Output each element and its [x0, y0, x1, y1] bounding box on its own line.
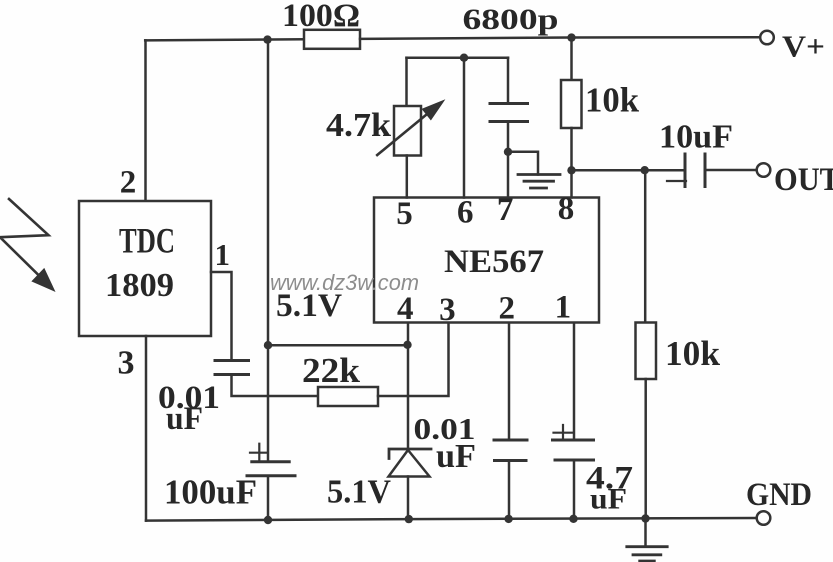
svg-text:6: 6: [457, 195, 474, 231]
svg-text:4.7k: 4.7k: [326, 107, 391, 144]
svg-text:uF: uF: [166, 401, 203, 437]
svg-text:6800p: 6800p: [463, 3, 559, 36]
capacitor C2 100uF plus sign: [250, 444, 268, 461]
svg-text:8: 8: [558, 191, 575, 227]
svg-text:3: 3: [439, 292, 456, 328]
wire pin1 to C4: [573, 323, 576, 441]
wire pot to pin5: [406, 156, 409, 198]
svg-text:TDC: TDC: [119, 221, 175, 261]
svg-text:100uF: 100uF: [164, 473, 257, 512]
resistor R1 100ohm body: [304, 30, 360, 49]
wire top rail left segment: [145, 39, 304, 40]
wire C1 bottom to 22k: [232, 375, 319, 397]
IC U2 NE567 box: [374, 198, 599, 323]
ground symbol near pin7: [518, 175, 560, 189]
svg-text:2: 2: [120, 165, 137, 201]
svg-text:2: 2: [498, 291, 515, 327]
diode D1 zener 5.1V: [389, 449, 431, 459]
wire pin6 vertical: [463, 58, 466, 198]
svg-text:1809: 1809: [105, 267, 174, 304]
wire pin2 to C3: [508, 323, 511, 441]
svg-text:3: 3: [118, 344, 135, 381]
svg-text:5: 5: [396, 196, 413, 232]
node junction C4 bottom: [569, 515, 577, 523]
svg-text:www.dz3w.com: www.dz3w.com: [270, 270, 419, 295]
wire C3 to bottom rail: [508, 461, 511, 520]
svg-text:22k: 22k: [302, 351, 361, 390]
wire pin7 to ground: [508, 152, 538, 175]
svg-text:uF: uF: [436, 438, 476, 475]
node junction top rail to 10k: [567, 33, 575, 41]
wire pin4 horizontal: [268, 344, 408, 347]
svg-text:7: 7: [497, 192, 514, 228]
wire zener to bottom rail: [407, 477, 410, 520]
resistor R4 10k body: [561, 80, 582, 128]
node junction zener bottom: [405, 515, 413, 523]
capacitor C2 100uF plates: [247, 462, 295, 476]
IC U1 TDC1809 box: [79, 201, 211, 336]
svg-text:1: 1: [555, 290, 572, 326]
svg-text:4: 4: [397, 291, 414, 327]
wire C4 to bottom rail: [573, 460, 576, 519]
IR input arrow: [0, 199, 49, 277]
node junction 5.1V column to pin4 wire: [264, 341, 272, 349]
svg-text:V+: V+: [782, 29, 825, 64]
svg-text:5.1V: 5.1V: [327, 474, 391, 511]
wire 22k to pin3: [378, 323, 449, 397]
node junction pin7 ground tap: [504, 148, 512, 156]
wire top rail right segment: [360, 37, 760, 39]
wire pin8 vertical: [570, 170, 573, 197]
capacitor C6 plus tick: [667, 180, 686, 182]
capacitor C3 0.01uF plates: [494, 440, 527, 461]
capacitor C4 4.7uF plus sign: [554, 425, 573, 439]
svg-text:NE567: NE567: [444, 244, 544, 280]
ground symbol bottom: [627, 547, 667, 561]
node junction top rail to 5.1V column: [263, 35, 271, 43]
svg-text:10k: 10k: [585, 81, 640, 120]
svg-text:uF: uF: [590, 483, 627, 516]
potentiometer R3 4.7k body: [394, 106, 421, 156]
svg-text:10uF: 10uF: [659, 119, 733, 156]
wire 10k bottom to pin8 node: [570, 128, 573, 170]
svg-text:1: 1: [215, 237, 231, 272]
terminal V+: [760, 31, 774, 45]
svg-text:OUT: OUT: [774, 162, 833, 198]
wire out column to 10k: [644, 170, 647, 322]
svg-text:100Ω: 100Ω: [282, 0, 360, 34]
node junction 5.1V column bottom rail: [264, 516, 272, 524]
capacitor C4 4.7uF plates: [553, 440, 594, 460]
wire C6 to OUT: [705, 169, 757, 172]
node junction pin4 wire: [403, 341, 411, 349]
wire pin4 to zener: [407, 323, 410, 450]
potentiometer arrow: [377, 113, 429, 156]
wire to bottom ground: [644, 519, 647, 547]
svg-text:10k: 10k: [665, 334, 721, 373]
wire TDC pin3 vertical: [145, 336, 148, 521]
terminal GND: [757, 511, 771, 525]
capacitor C5 6800p plates: [490, 104, 528, 122]
wire pot top: [405, 58, 408, 106]
svg-text:GND: GND: [746, 477, 812, 513]
resistor R5 10k body: [636, 323, 657, 380]
node junction C3 bottom: [504, 515, 512, 523]
wire bottom rail: [146, 518, 756, 521]
node junction 10k bottom rail: [641, 514, 649, 522]
wire timing subrail: [407, 56, 509, 59]
resistor R2 22k body: [318, 387, 378, 406]
wire TDC pin2 vertical: [144, 40, 147, 201]
capacitor C6 10uF plates: [685, 154, 705, 187]
node junction subrail pin6: [460, 54, 468, 62]
wire TDC pin1 to C 0.01uF: [211, 272, 232, 361]
wire 5.1V column x=268: [267, 40, 270, 520]
capacitor C1 0.01uF plates: [215, 361, 249, 375]
node junction pin8: [567, 166, 575, 174]
wire 10k top: [570, 38, 573, 80]
wire C5 to pin7: [507, 122, 510, 198]
wire pin8 horizontal to C6: [572, 169, 684, 172]
wire subrail to C5: [507, 58, 510, 104]
node junction out column: [641, 166, 649, 174]
terminal OUT: [757, 163, 771, 177]
wire 10k to bottom rail: [644, 379, 647, 519]
